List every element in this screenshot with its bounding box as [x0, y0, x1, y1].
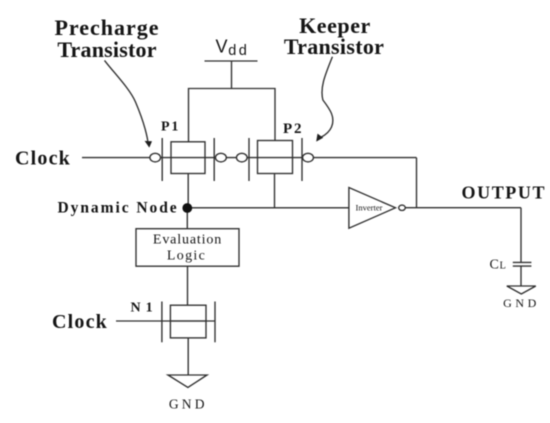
wire N1 source to ground: [187, 338, 189, 375]
capacitor CL: [513, 262, 532, 266]
svg-text:C: C: [490, 258, 499, 273]
wire inverter output: [405, 207, 521, 209]
wire clock to keeper feedback (main horizontal): [82, 157, 417, 159]
svg-text:Logic: Logic: [167, 249, 206, 264]
svg-text:GND: GND: [169, 397, 208, 412]
svg-text:N1: N1: [131, 301, 158, 316]
arrow keeper pointer: [322, 57, 333, 137]
wire evaluation logic to N1: [187, 266, 189, 305]
wire top rail: [189, 89, 276, 142]
wire Vdd stub: [231, 61, 233, 89]
wire CL to ground: [520, 266, 522, 286]
svg-text:V: V: [216, 37, 228, 57]
svg-text:dd: dd: [228, 43, 249, 59]
svg-text:Clock: Clock: [52, 311, 108, 333]
wire P2 drain down: [274, 174, 276, 208]
wire node to evaluation logic: [186, 208, 188, 229]
wire output down to CL: [520, 208, 522, 263]
svg-text:GND: GND: [503, 296, 540, 310]
transistor P2: [237, 138, 314, 181]
svg-text:Evaluation: Evaluation: [153, 233, 222, 248]
wire feedback vertical: [416, 158, 418, 208]
svg-text:Dynamic Node: Dynamic Node: [58, 200, 179, 217]
arrowhead keeper: [316, 134, 323, 142]
Vdd supply bar: [205, 60, 258, 62]
op-amp inverter U1: [349, 188, 396, 229]
wire dynamic node horizontal: [187, 207, 349, 209]
svg-text:Clock: Clock: [15, 148, 71, 170]
svg-text:P2: P2: [283, 121, 303, 137]
svg-text:Inverter: Inverter: [356, 202, 383, 212]
ground (left): [168, 375, 207, 388]
evaluation logic box: [136, 229, 239, 267]
svg-text:L: L: [500, 261, 506, 272]
svg-text:Transistor: Transistor: [284, 34, 384, 59]
node dynamic (junction dot): [182, 203, 192, 213]
transistor N1: [162, 302, 215, 343]
arrowhead precharge: [145, 141, 152, 148]
transistor P1: [150, 138, 226, 181]
svg-text:Transistor: Transistor: [57, 37, 156, 62]
ground (right): [507, 286, 536, 294]
wire P1 drain down: [187, 174, 189, 208]
svg-text:OUTPUT: OUTPUT: [462, 183, 547, 203]
svg-text:P1: P1: [161, 120, 180, 135]
arrow precharge pointer: [105, 60, 148, 141]
wire clock to N1: [116, 320, 215, 322]
